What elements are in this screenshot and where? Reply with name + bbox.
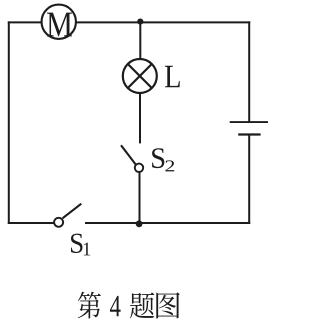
wire: top-left segment (left corner to motor) [8,21,42,23]
switch S1 pivot circle [54,218,63,227]
wire: bottom-left segment (corner to switch S1) [8,222,54,224]
label S1: letter S [71,234,83,253]
battery: long plate (positive terminal) [230,121,268,123]
label L [165,66,180,88]
node: top junction dot [137,19,143,25]
wire: right vertical upper (top corner to battery plate) [248,21,250,122]
wire: lamp down to switch S2 fixed terminal [139,93,141,143]
switch S2 blade (open) [121,145,136,164]
wire: bottom junction to bottom-right corner [140,222,251,224]
label S2: subscript 2 [165,160,174,171]
motor letter M [47,13,72,37]
switch S2 pivot circle [135,164,143,172]
wire: top junction to top-right corner [140,21,250,23]
wire: right vertical lower (battery plate to bottom corner) [248,135,250,225]
battery: short plate (negative terminal) [238,133,260,135]
wire: switch S1 to bottom junction node [85,222,140,224]
switch S1 blade (open) [63,204,82,219]
wire: top junction down to lamp [139,22,141,59]
wire: motor to top junction node [76,21,140,23]
wire: left vertical side [8,21,10,224]
label S1: subscript 1 [84,243,90,256]
lamp L (circle with cross symbol) [123,59,157,93]
motor M (circle symbol) [42,5,76,39]
wire: switch S2 pivot down to bottom junction [139,173,141,224]
node: bottom junction dot [136,220,143,227]
label S2: letter S [152,148,164,168]
caption: 第 4 题图 (figure caption) [78,292,180,319]
